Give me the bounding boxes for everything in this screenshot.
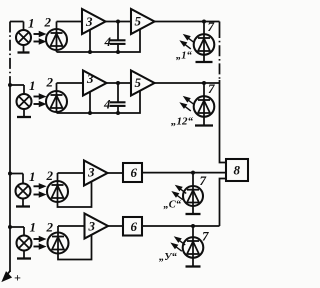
LED 7 indicator „1” (row 1) [194,22,215,63]
lamp 1 (row 3) [16,174,31,207]
svg-text:1: 1 [30,219,37,234]
light arrows row 4 [34,237,45,248]
svg-text:3: 3 [86,71,94,86]
svg-text:6: 6 [131,165,138,180]
right rail lower stub to row 4 [220,179,227,227]
bottom loop row4 [58,234,92,260]
photodiode 2 (row 2) [46,83,67,113]
supply + terminal arrow [3,271,11,281]
op-amp 3 (row 3) [84,161,108,186]
LED 7 indicator „У” (row 4) [183,226,204,267]
photodiode 2 (row 4) [48,226,69,254]
light arrows row 2 [34,95,45,106]
svg-text:5: 5 [135,14,142,29]
LED emission arrows row2 [181,97,194,111]
svg-text:4: 4 [104,34,112,49]
LED emission arrows row1 [181,35,194,49]
wire row1: amp3 to amp5 [106,21,132,23]
photodiode 2 (row 3) [47,173,68,202]
svg-text:2: 2 [46,220,54,235]
bottom rail row2 [57,90,141,113]
wire tap row2 [10,84,24,86]
svg-text:1: 1 [28,15,35,30]
svg-text:„C“: „C“ [164,200,182,211]
svg-text:2: 2 [46,168,54,183]
lamp 1 (row 2) [17,85,32,117]
wire row2: amp3 to amp5 [107,82,132,84]
op-amp 5 (row 1) [131,9,155,34]
capacitor 4 (row 2) [110,83,126,113]
svg-text:7: 7 [202,229,209,244]
svg-text:+: + [14,271,21,285]
LED emission arrows row3 [173,186,186,200]
svg-text:8: 8 [234,163,241,178]
junction dot [202,20,206,24]
wire tap row3 [10,173,23,175]
junction dot supply row4 [8,225,12,229]
lamp 1 (row 4) [17,227,32,259]
LED 7 indicator „12” (row 2) [194,83,215,126]
junction dot [116,81,120,85]
svg-text:3: 3 [85,14,93,29]
svg-text:4: 4 [103,97,111,112]
op-amp 3 (row 2) [83,71,107,96]
amp3 second-input stub row1 [89,30,91,52]
svg-text:1: 1 [29,169,36,184]
bottom loop row3 [58,181,92,207]
junction dot [116,111,120,115]
junction dot [191,171,195,175]
junction dot [88,50,92,54]
wire row4: box6 to right riser [142,225,220,227]
wire row2: photodiode to amp3 [57,82,84,84]
svg-text:„1“: „1“ [176,51,193,62]
lamp 1 (row 1) [16,22,31,53]
wire row1: photodiode to amp3 [57,21,83,23]
svg-text:7: 7 [208,81,215,96]
svg-text:„12“: „12“ [171,116,194,128]
supply line (dash-dot upper section) [9,22,11,86]
block 6 (row 4) [123,217,142,236]
wire row1: amp5 to right rail [155,21,220,23]
svg-text:2: 2 [44,14,52,29]
capacitor 4 (row 1) [110,22,126,53]
svg-text:7: 7 [200,173,207,188]
bottom rail row1 [57,29,141,52]
right rail solid top corner [219,22,221,28]
wire row3: amp3 to box6 [108,172,124,174]
right rail dash-dot section [219,27,221,80]
junction dot [116,50,120,54]
LED emission arrows row4 [172,237,185,251]
svg-text:2: 2 [46,75,54,90]
wire row2: amp5 to right rail [155,82,220,84]
amp3 second-input stub row2 [89,91,91,113]
junction dot [191,224,195,228]
op-amp 5 (row 2) [131,71,155,96]
op-amp 3 (row 1) [82,9,106,34]
junction dot supply row2 [8,83,12,87]
wire row3: photodiode to amp3 [58,172,85,174]
svg-text:„У“: „У“ [159,252,178,263]
LED 7 indicator „C” (row 3) [183,173,203,214]
wire row4: amp3 to box6 [108,225,123,227]
junction dot supply row3 [8,172,12,176]
wire tap row4 [10,226,24,228]
junction dot [88,111,92,115]
junction dot [116,20,120,24]
light arrows row 3 [34,184,45,196]
svg-text:1: 1 [29,78,36,93]
light arrows row 1 [34,32,45,43]
supply line (solid lower section) [9,85,11,272]
svg-text:7: 7 [208,19,215,34]
svg-text:5: 5 [135,75,142,90]
block 8 [226,159,248,181]
svg-text:3: 3 [88,219,96,234]
right rail solid section to box 8 [220,80,227,163]
svg-text:3: 3 [87,165,95,180]
wire tap row1 [10,21,24,23]
photodiode 2 (row 1) [46,22,67,53]
svg-text:6: 6 [131,219,138,234]
op-amp 3 (row 4) [85,214,109,239]
wire row3: box6 to box8 [142,172,226,174]
junction dot [202,81,206,85]
block 6 (row 3) [123,163,142,182]
wire row4: photodiode to amp3 [58,225,85,227]
